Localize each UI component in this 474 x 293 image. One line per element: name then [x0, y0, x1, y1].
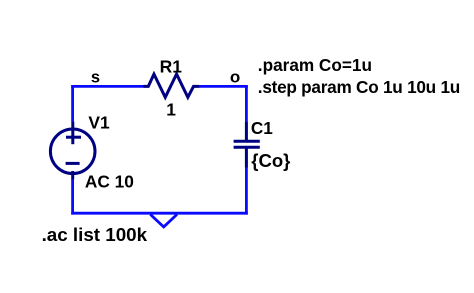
svg-text:.ac list 100k: .ac list 100k [42, 224, 148, 245]
svg-text:AC 10: AC 10 [85, 171, 134, 191]
resistor R1 [143, 74, 199, 97]
svg-text:V1: V1 [88, 112, 110, 132]
svg-text:R1: R1 [160, 56, 183, 76]
wire top-left horizontal (node s) [71, 85, 143, 88]
svg-text:C1: C1 [251, 118, 273, 138]
wire left vertical lower [71, 179, 74, 215]
svg-text:s: s [91, 69, 100, 87]
wire left vertical upper [71, 85, 74, 122]
wire top-right horizontal (node o) [199, 85, 248, 88]
capacitor C1 [234, 122, 260, 168]
svg-text:.step param Co 1u 10u 1u: .step param Co 1u 10u 1u [258, 77, 460, 97]
svg-text:1: 1 [166, 100, 176, 120]
wire right vertical lower [245, 167, 248, 214]
wire right vertical upper [245, 85, 248, 122]
svg-text:.param Co=1u: .param Co=1u [258, 55, 372, 75]
svg-text:{Co}: {Co} [251, 150, 290, 171]
voltage source V1 [50, 122, 95, 180]
svg-text:o: o [230, 68, 240, 87]
wire bottom horizontal [71, 212, 248, 215]
ground [150, 214, 177, 227]
